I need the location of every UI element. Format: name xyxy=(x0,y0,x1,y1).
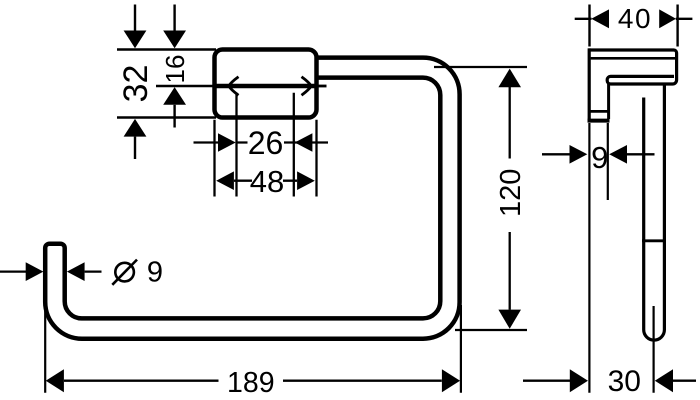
diameter symbol slash xyxy=(112,260,137,285)
dim 30 left tail xyxy=(523,380,570,382)
svg-text:16: 16 xyxy=(160,55,190,84)
dim 9 left tail xyxy=(542,153,570,155)
svg-text:189: 189 xyxy=(227,367,275,399)
dim 9 left-pointing arrowhead xyxy=(609,145,627,164)
dim 48 line segments xyxy=(234,180,297,182)
dim 32 down arrowhead xyxy=(124,31,147,49)
front view: mounting bar through block (thick) xyxy=(215,84,317,89)
dim 48 right arrowhead xyxy=(297,171,315,190)
dim 40 right tail xyxy=(676,18,693,20)
dim 189 left arrowhead xyxy=(46,369,64,392)
dim 9 right-pointing arrowhead xyxy=(570,145,588,164)
dim 26 line segments xyxy=(236,141,295,143)
dim 40 right arrowhead xyxy=(659,9,676,28)
side view: hanging bar (ring profile) with round bottom xyxy=(644,84,665,340)
side view: wall plate back face xyxy=(607,84,610,119)
curved arrowhead right on bar xyxy=(302,77,312,95)
dim 189 line left xyxy=(64,380,219,382)
svg-text:40: 40 xyxy=(618,3,652,34)
extension line block left edge down xyxy=(213,120,215,197)
dim 30 right tail xyxy=(673,380,696,382)
dim 26 left arrowhead xyxy=(218,133,236,152)
extension line bar end right (26 dim) xyxy=(293,93,295,197)
side view: top plate second line xyxy=(591,57,675,60)
side view: wall plate step line xyxy=(589,110,609,113)
extension line ring top axis (120 dim) xyxy=(434,66,527,68)
dim 30 right-pointing arrowhead xyxy=(570,369,588,392)
dim 120 up arrowhead xyxy=(498,69,521,88)
mounting bar thin extension left xyxy=(156,85,215,87)
dim 120 line lower xyxy=(509,232,511,310)
dim 16 up arrowhead xyxy=(163,87,186,105)
dim 32 lower stem xyxy=(134,137,136,159)
extension line block right edge down xyxy=(315,120,317,197)
dim diameter 9 left tail xyxy=(0,270,27,272)
svg-text:9: 9 xyxy=(147,257,163,289)
side view: wall plate bottom cap xyxy=(588,119,610,123)
dim 16 down arrowhead xyxy=(163,31,186,49)
dim 16 upper stem xyxy=(173,5,175,31)
dim 26 right tail xyxy=(295,141,328,143)
svg-text:26: 26 xyxy=(248,125,284,161)
dim 40 left tail xyxy=(575,18,592,20)
side view: bracket top plate, right edge and flange xyxy=(588,50,676,84)
extension line block bottom (left) xyxy=(117,116,216,118)
extension line hook left edge down (189 dim) xyxy=(44,311,46,393)
svg-text:32: 32 xyxy=(117,65,155,103)
svg-text:48: 48 xyxy=(250,164,284,199)
dim 40 right extension line xyxy=(676,5,678,47)
extension line block top (left) xyxy=(117,48,216,50)
front view: towel ring tube outline xyxy=(45,58,459,339)
dim 9 right tail xyxy=(627,153,655,155)
dim diameter 9 inner tail xyxy=(85,270,102,272)
dim 40 left arrowhead xyxy=(591,9,609,28)
dim 26 left tail xyxy=(194,141,219,143)
curved arrowhead left on bar xyxy=(229,77,239,95)
extension line bar end left (26 dim) xyxy=(235,93,237,197)
dim 32 upper stem xyxy=(134,5,136,31)
dim diameter 9 left-pointing arrowhead xyxy=(67,262,85,281)
mounting bar thin extension right xyxy=(317,85,327,88)
dim 32 up arrowhead xyxy=(124,119,147,137)
extension line plate back face down (9 dim) xyxy=(607,123,609,200)
diameter symbol circle xyxy=(115,263,134,282)
svg-text:9: 9 xyxy=(591,140,608,175)
extension line plate front face down (9 and 30 dims) xyxy=(588,123,590,393)
svg-text:30: 30 xyxy=(608,365,641,398)
svg-text:120: 120 xyxy=(495,169,527,217)
dim 48 left arrowhead xyxy=(216,171,234,190)
extension line ring bottom axis (120 dim) xyxy=(455,329,527,331)
dim 189 right arrowhead xyxy=(442,369,460,392)
dim 189 line right xyxy=(283,380,442,382)
front view: wall-mount block (rounded rect) xyxy=(215,50,317,118)
dim 26 right arrowhead xyxy=(295,133,313,152)
extension line bar axis down (30 dim) xyxy=(652,306,654,393)
dim 120 down arrowhead xyxy=(498,310,521,329)
dim 40 left extension line xyxy=(588,5,590,47)
side view: wall plate front face xyxy=(588,48,591,120)
dim 16 lower stem xyxy=(173,105,175,128)
dim diameter 9 right-pointing arrowhead xyxy=(26,262,44,281)
extension line ring right edge down (189 dim) xyxy=(460,305,462,393)
side view: bar joint tick xyxy=(642,239,666,242)
dim 30 left-pointing arrowhead xyxy=(655,369,673,392)
dim 120 line upper xyxy=(509,87,511,159)
